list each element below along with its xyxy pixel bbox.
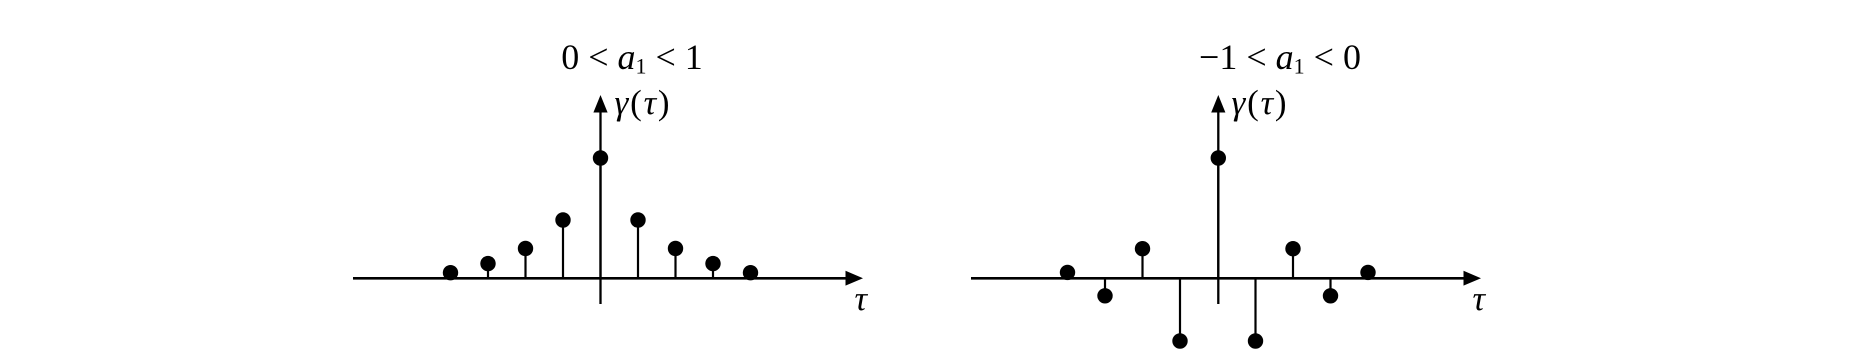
right stem lag 4 bbox=[1367, 272, 1369, 278]
right dot lag 4 bbox=[1360, 265, 1375, 280]
right dot lag -4 bbox=[1060, 265, 1075, 280]
left stem lag 0 bbox=[599, 158, 601, 278]
svg-text:τ: τ bbox=[855, 279, 869, 318]
left dot lag -4 bbox=[443, 265, 458, 280]
left stem lag -1 bbox=[562, 220, 564, 278]
left stem lag -4 bbox=[449, 273, 451, 279]
left stem lag 2 bbox=[674, 249, 676, 279]
right stem lag -1 bbox=[1179, 278, 1181, 341]
left dot lag 2 bbox=[668, 241, 683, 256]
svg-text:γ(τ): γ(τ) bbox=[1232, 83, 1289, 122]
x-axis right arrowhead bbox=[1464, 271, 1482, 286]
left dot lag 0 bbox=[593, 150, 608, 165]
right dot lag -1 bbox=[1172, 333, 1187, 348]
svg-text:0 < a1 < 1: 0 < a1 < 1 bbox=[561, 37, 703, 79]
y-axis left arrowhead bbox=[593, 95, 607, 113]
left dot lag -3 bbox=[480, 256, 495, 271]
x-axis left arrowhead bbox=[846, 271, 864, 286]
right dot lag 3 bbox=[1323, 288, 1338, 303]
right stem lag -3 bbox=[1104, 278, 1106, 296]
right stem lag -2 bbox=[1141, 249, 1143, 279]
right stem lag 3 bbox=[1329, 278, 1331, 296]
left dot lag -2 bbox=[518, 241, 533, 256]
right stem lag 1 bbox=[1254, 278, 1256, 341]
left stem lag -3 bbox=[487, 264, 489, 279]
x-axis left bbox=[353, 277, 848, 280]
right dot lag 2 bbox=[1285, 241, 1300, 256]
right dot lag -3 bbox=[1097, 288, 1112, 303]
y-axis right arrowhead bbox=[1211, 95, 1225, 113]
right stem lag -4 bbox=[1066, 272, 1068, 278]
left dot lag -1 bbox=[555, 212, 570, 227]
right stem lag 0 bbox=[1217, 158, 1219, 278]
left stem lag 3 bbox=[712, 264, 714, 279]
y-axis left bbox=[599, 108, 601, 304]
svg-text:−1 < a1 < 0: −1 < a1 < 0 bbox=[1199, 37, 1361, 79]
left dot lag 3 bbox=[705, 256, 720, 271]
right stem lag 2 bbox=[1292, 249, 1294, 279]
x-axis right bbox=[971, 277, 1466, 280]
svg-text:τ: τ bbox=[1473, 279, 1487, 318]
right dot lag 0 bbox=[1211, 150, 1226, 165]
right dot lag -2 bbox=[1135, 241, 1150, 256]
left stem lag 1 bbox=[637, 220, 639, 278]
y-axis right bbox=[1217, 108, 1219, 304]
left dot lag 4 bbox=[743, 265, 758, 280]
left dot lag 1 bbox=[630, 212, 645, 227]
left stem lag 4 bbox=[749, 273, 751, 279]
svg-text:γ(τ): γ(τ) bbox=[615, 83, 672, 122]
right dot lag 1 bbox=[1248, 333, 1263, 348]
left stem lag -2 bbox=[524, 249, 526, 279]
